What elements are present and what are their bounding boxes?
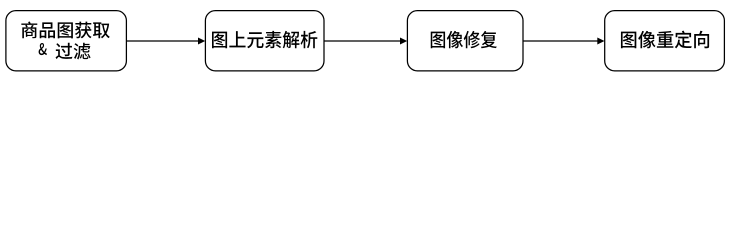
box B1 商品图获取&过滤 xyxy=(6,11,127,71)
text B4 图像重定向 xyxy=(621,31,709,49)
arrow A2: B2 to B3 xyxy=(324,38,407,45)
text B1 line2 过滤 xyxy=(56,43,91,60)
text B2 图上元素解析 xyxy=(212,31,317,49)
arrow A3: B3 to B4 xyxy=(523,38,605,45)
box B3 图像修复 xyxy=(407,11,523,71)
box B4 图像重定向 xyxy=(605,11,725,71)
text B1 line1 商品图获取 xyxy=(21,22,109,39)
box B2 图上元素解析 xyxy=(205,11,324,71)
text B3 图像修复 xyxy=(431,31,497,48)
text B1 line2 ampersand xyxy=(39,43,47,55)
arrow A1: B1 to B2 xyxy=(126,38,205,45)
